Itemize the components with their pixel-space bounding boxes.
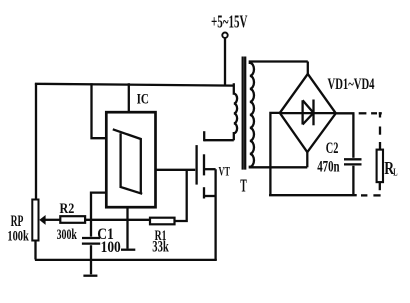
- ground bar under IC bottom pin: [121, 249, 135, 251]
- wire mid rail from R2 to R1: [85, 219, 150, 221]
- transformer T secondary winding with leads: [250, 62, 308, 168]
- svg-text:L: L: [393, 166, 397, 178]
- wire bottom ground rail: [35, 259, 217, 261]
- wire bridge right vertex to C2 top: [336, 112, 355, 114]
- label VD1~VD4: [328, 76, 375, 93]
- svg-text:RP: RP: [11, 213, 24, 230]
- wire IC lower-left pin to R2/C1 junction: [91, 193, 107, 220]
- svg-text:VD1~VD4: VD1~VD4: [328, 76, 375, 93]
- label RP: [11, 213, 24, 230]
- label R2 value 300k: [57, 227, 78, 243]
- wire top supply rail: [35, 84, 234, 86]
- svg-text:100: 100: [101, 239, 121, 256]
- wire IC right pin to VT gate: [156, 169, 196, 171]
- label RP value 100k: [7, 229, 29, 245]
- capacitor C2: [344, 113, 362, 196]
- wire bridge left vertex down to right bottom rail: [270, 113, 279, 195]
- potentiometer RP body: [32, 200, 38, 241]
- transformer T primary winding: [234, 83, 237, 140]
- svg-text:C2: C2: [326, 140, 339, 157]
- node supply terminal circle: [222, 33, 227, 38]
- label C1 value 100: [101, 239, 121, 256]
- dashed wire C2 top to RL top: [359, 112, 382, 150]
- svg-text:300k: 300k: [57, 227, 78, 243]
- resistor RL load body: [377, 150, 383, 183]
- wire VT source down to bottom rail: [214, 169, 216, 260]
- transformer T core: [243, 57, 246, 170]
- wire supply terminal down to top rail: [224, 38, 226, 84]
- wire bridge bottom vertex stub to secondary bottom lead: [306, 152, 308, 168]
- ground bar under C1: [83, 275, 97, 277]
- svg-text:470n: 470n: [317, 159, 339, 176]
- wire top rail to IC top pin: [128, 83, 130, 112]
- wire R1 right lead up to gate wire: [175, 170, 187, 221]
- diode symbol inside bridge: [280, 100, 336, 126]
- wire secondary top to bridge top vertex: [307, 62, 309, 75]
- label R1: [155, 228, 167, 244]
- svg-text:+5~15V: +5~15V: [211, 12, 248, 32]
- label IC: [137, 92, 149, 108]
- bridge rectifier VD1~VD4 diamond: [280, 74, 336, 152]
- svg-text:T: T: [240, 175, 247, 195]
- transistor VT mosfet: [197, 131, 216, 198]
- label C2: [326, 140, 339, 157]
- svg-text:IC: IC: [137, 92, 149, 108]
- wire right bottom rail: [269, 194, 357, 196]
- wire left vertical from top rail down to RP top: [35, 83, 37, 200]
- label R2: [60, 201, 75, 217]
- label +5~15V supply: [211, 12, 248, 32]
- wire RP bottom lead to bottom rail: [34, 241, 36, 260]
- dashed wire RL bottom to right bottom rail: [361, 182, 381, 195]
- resistor R1 body: [150, 218, 175, 225]
- svg-text:R2: R2: [60, 201, 75, 217]
- svg-text:100k: 100k: [7, 229, 29, 245]
- label C1: [97, 226, 114, 243]
- svg-text:VT: VT: [219, 165, 231, 179]
- label R1 value 33k: [152, 239, 169, 256]
- ramp waveform symbol inside IC: [113, 129, 142, 194]
- wiper arrow of RP: [39, 215, 60, 225]
- resistor R2 body: [60, 216, 85, 223]
- label RL: [384, 158, 397, 178]
- label VT: [219, 165, 231, 179]
- IC block: [106, 112, 155, 207]
- capacitor C1: [82, 220, 100, 274]
- label C2 value 470n: [317, 159, 339, 176]
- wire top rail to IC upper-left pin: [92, 83, 107, 138]
- label T: [240, 175, 247, 195]
- wire VT drain to transformer primary bottom: [204, 139, 234, 141]
- wire IC bottom pin down through mid rail: [126, 208, 128, 249]
- svg-text:33k: 33k: [152, 239, 169, 256]
